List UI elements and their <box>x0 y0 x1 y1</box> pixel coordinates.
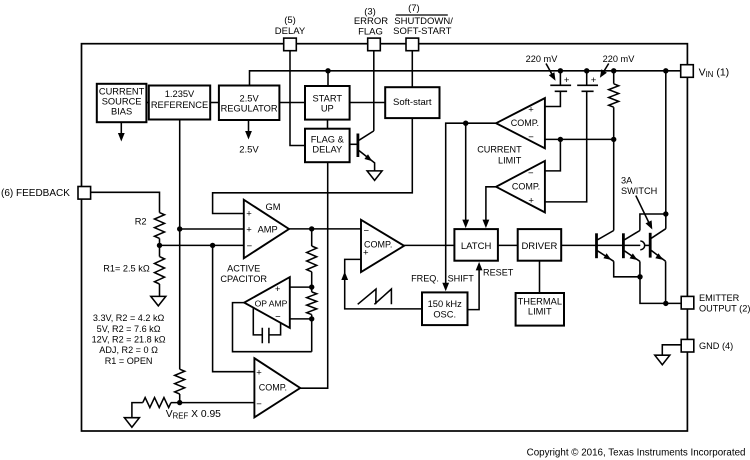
svg-text:GND (4): GND (4) <box>699 341 733 351</box>
resistor Vref divider vertical <box>175 369 185 394</box>
svg-text:220 mV: 220 mV <box>603 54 636 64</box>
svg-text:VREF X 0.95: VREF X 0.95 <box>166 409 221 421</box>
node GM output <box>309 226 314 231</box>
svg-text:+: + <box>591 75 597 86</box>
svg-text:OSC.: OSC. <box>433 310 456 320</box>
wire comp1 output branch to latch set <box>465 123 467 224</box>
pin FEEDBACK (6) <box>78 187 91 200</box>
svg-text:−: − <box>256 399 262 410</box>
wire PWM comparator output to latch <box>404 244 454 246</box>
wire op-amp - input <box>290 318 312 320</box>
wire regulator to start-up <box>279 102 305 104</box>
node sense line left <box>558 137 563 142</box>
resistor 220mV current sense <box>609 84 619 107</box>
svg-text:−: − <box>275 311 281 322</box>
svg-text:DELAY: DELAY <box>275 26 306 37</box>
svg-text:+: + <box>275 284 281 295</box>
block 2.5V REGULATOR <box>219 86 280 121</box>
svg-text:SHIFT: SHIFT <box>448 273 475 283</box>
node comp1 output branch <box>463 121 468 126</box>
wire R2 bottom to junction <box>159 238 161 256</box>
svg-text:R2: R2 <box>135 216 147 226</box>
svg-text:+: + <box>528 196 534 207</box>
wire op-amp + input <box>290 286 312 288</box>
block START UP <box>305 86 350 120</box>
ground at GND pin <box>655 355 670 365</box>
wire GM amp output to PWM comparator - input <box>289 228 361 230</box>
svg-text:+: + <box>256 367 262 378</box>
svg-text:REFERENCE: REFERENCE <box>151 100 208 110</box>
wire hop on base line <box>640 241 644 250</box>
wire VIN to 3A switch collectors <box>665 71 667 229</box>
svg-text:3.3V, R2 = 4.2 kΩ: 3.3V, R2 = 4.2 kΩ <box>93 313 165 323</box>
wire R1 to ground <box>159 284 161 296</box>
wire VIN rail to start-up top <box>327 71 329 86</box>
wire latch to driver <box>498 244 518 246</box>
svg-text:150 kHz: 150 kHz <box>428 299 462 309</box>
ground at Vref divider <box>124 418 139 428</box>
svg-text:FLAG &: FLAG & <box>311 135 345 145</box>
svg-text:+: + <box>363 248 369 259</box>
svg-text:R1 = OPEN: R1 = OPEN <box>105 356 153 366</box>
svg-text:COMP.: COMP. <box>259 382 287 392</box>
comparator PWM COMP <box>361 220 404 272</box>
svg-text:ADJ, R2 = 0 Ω: ADJ, R2 = 0 Ω <box>99 345 158 355</box>
wire op-amp feedback loop <box>233 303 312 352</box>
node VIN rail junctions <box>325 68 330 73</box>
wire start-up to soft-start <box>350 102 386 104</box>
wire Vref node resistor lead <box>132 403 180 418</box>
svg-text:EMITTER: EMITTER <box>699 293 740 303</box>
wire oscillator reset to latch <box>468 266 480 310</box>
pin DELAY (5) <box>284 38 297 51</box>
block THERMAL LIMIT <box>516 293 564 326</box>
comparator current limit 2 <box>496 161 545 213</box>
svg-text:LATCH: LATCH <box>461 241 492 252</box>
wire reference tap to GM amp + input <box>180 228 244 230</box>
capacitor active capacitor <box>253 308 280 344</box>
svg-text:SOFT-START: SOFT-START <box>393 26 451 37</box>
wire emitter output node to pin <box>640 277 681 304</box>
wire current limit comparator 2 output to latch <box>486 187 496 225</box>
node sense line right <box>611 137 616 142</box>
svg-text:(7): (7) <box>408 3 420 14</box>
arrow below current source bias <box>120 122 122 133</box>
wire driver output transistor base line <box>561 244 640 246</box>
wire Q2 emitter down <box>639 261 641 276</box>
wire flag-delay down to low comparator output <box>300 162 328 388</box>
wire PWM comparator + from sawtooth <box>345 259 422 309</box>
block DRIVER <box>518 229 562 261</box>
svg-text:220 mV: 220 mV <box>526 54 559 64</box>
arrow sawtooth into PWM comparator <box>341 272 348 281</box>
svg-text:OP AMP: OP AMP <box>255 298 288 308</box>
arrow comp1 set into latch <box>462 220 469 229</box>
svg-text:THERMAL: THERMAL <box>518 296 562 306</box>
svg-text:OUTPUT (2): OUTPUT (2) <box>699 303 750 313</box>
resistor active capacitor upper <box>307 246 317 272</box>
svg-text:(6) FEEDBACK: (6) FEEDBACK <box>1 188 70 199</box>
node emitter output <box>663 301 668 306</box>
node reference tap <box>177 226 182 231</box>
node Vref divider <box>177 400 182 405</box>
comparator low dropout COMP <box>254 358 300 417</box>
pin ERROR FLAG (3) <box>368 38 381 51</box>
wire sense resistor leads <box>613 71 615 231</box>
wire VIN rail y=70.8 <box>250 71 682 86</box>
pin EMITTER OUTPUT (2) <box>681 296 694 309</box>
resistor Vref horizontal <box>143 398 171 408</box>
capacitor C1 220mV sense <box>550 85 571 91</box>
wire comp1 - input current sense line <box>545 138 614 140</box>
wire GND pin to ground <box>662 345 681 355</box>
svg-text:LIMIT: LIMIT <box>528 306 552 316</box>
resistor R2 <box>155 213 165 239</box>
ground at flag transistor emitter <box>367 171 382 181</box>
svg-text:CURRENT: CURRENT <box>477 145 522 155</box>
block FLAG & DELAY <box>305 129 350 163</box>
svg-text:CPACITOR: CPACITOR <box>220 274 267 284</box>
resistor active capacitor lower <box>307 292 317 315</box>
svg-text:+: + <box>246 209 252 220</box>
svg-text:R1= 2.5 kΩ: R1= 2.5 kΩ <box>103 264 150 274</box>
pin SHUTDOWN/SOFT-START (7) <box>406 38 419 51</box>
svg-text:2.5V: 2.5V <box>239 145 259 156</box>
node feedback branch <box>210 243 215 248</box>
wire feedback node down to low comparator + input <box>213 245 255 371</box>
wire active capacitor resistor chain <box>311 229 313 352</box>
block LATCH <box>454 229 498 261</box>
svg-text:UP: UP <box>321 104 334 114</box>
svg-text:START: START <box>312 94 342 104</box>
svg-text:VIN (1): VIN (1) <box>699 66 730 79</box>
svg-text:REGULATOR: REGULATOR <box>221 103 278 113</box>
comparator current limit 1 <box>496 98 545 148</box>
block Soft-start <box>385 87 439 118</box>
pin GND (4) <box>681 339 694 352</box>
arrow comp2 set into latch <box>483 220 490 229</box>
ground at R1 <box>151 296 166 306</box>
wire soft-start down and left to GM amp + input <box>213 118 413 213</box>
op-amp active capacitor OP AMP <box>244 277 290 328</box>
wire SHUTDOWN pin to Soft-start top <box>411 51 413 88</box>
svg-text:5V, R2 = 7.6 kΩ: 5V, R2 = 7.6 kΩ <box>97 324 161 334</box>
svg-text:12V, R2 = 21.8 kΩ: 12V, R2 = 21.8 kΩ <box>92 335 166 345</box>
svg-text:−: − <box>247 241 253 252</box>
svg-text:DELAY: DELAY <box>312 145 342 155</box>
block CURRENT SOURCE BIAS <box>97 84 147 122</box>
transistor Q2 3A switch <box>622 233 625 258</box>
wire Q3 emitter down <box>665 261 667 303</box>
svg-text:Soft-start: Soft-start <box>393 97 432 108</box>
svg-text:FLAG: FLAG <box>358 27 383 38</box>
op-amp GM AMP <box>244 200 289 259</box>
svg-text:LIMIT: LIMIT <box>498 155 522 165</box>
pin VIN (1) <box>681 65 694 78</box>
svg-text:DRIVER: DRIVER <box>521 241 557 252</box>
svg-text:SWITCH: SWITCH <box>621 186 657 196</box>
wire FEEDBACK pin to R2 <box>90 192 159 212</box>
wire ERROR FLAG pin down to flag transistor collector <box>373 51 375 131</box>
svg-text:COMP.: COMP. <box>511 118 539 128</box>
svg-text:FREQ.: FREQ. <box>411 273 439 283</box>
svg-text:COMP.: COMP. <box>512 182 540 192</box>
wire bias to reference <box>146 102 148 104</box>
block 1.235V REFERENCE <box>149 86 210 120</box>
svg-text:SOURCE: SOURCE <box>102 97 142 107</box>
node op-amp + tap <box>309 284 314 289</box>
svg-text:CURRENT: CURRENT <box>99 87 145 97</box>
svg-text:RESET: RESET <box>483 268 514 278</box>
wire reference output down to Vref divider <box>179 120 181 370</box>
svg-text:−: − <box>528 132 534 143</box>
wire start-up to flag-delay <box>327 120 329 129</box>
node op-amp - tap <box>309 316 314 321</box>
wire cap2 to comp2 + input <box>545 71 587 202</box>
wire Vref resistor to node <box>179 394 181 403</box>
transistor Q3 3A switch <box>649 233 652 258</box>
svg-text:+: + <box>528 104 534 115</box>
svg-text:+: + <box>564 75 570 86</box>
svg-text:1.235V: 1.235V <box>165 89 195 99</box>
resistor R1 2.5k <box>155 257 165 284</box>
wire DELAY pin to FLAG & DELAY <box>290 51 305 146</box>
arrow and 2.5V label below regulator <box>248 120 250 132</box>
wire feedback node to GM amp - input <box>160 244 244 246</box>
wire driver to thermal limit <box>539 261 541 293</box>
wire comp2 - input <box>545 139 561 171</box>
svg-text:(5): (5) <box>284 15 296 26</box>
sawtooth waveform <box>358 289 392 304</box>
svg-text:AMP: AMP <box>258 224 278 234</box>
svg-text:Copyright © 2016, Texas Instru: Copyright © 2016, Texas Instruments Inco… <box>527 448 746 459</box>
arrow reset into latch <box>476 262 483 271</box>
svg-text:−: − <box>528 168 534 179</box>
svg-text:GM: GM <box>266 202 281 212</box>
wire Q1 emitter to output node <box>614 261 640 277</box>
wire reference to regulator <box>210 102 219 104</box>
capacitor C2 220mV sense <box>577 85 598 91</box>
node emitter join <box>637 274 642 279</box>
arrow freq shift into oscillator <box>442 283 449 292</box>
svg-text:+: + <box>246 225 252 236</box>
transistor Q1 3A switch <box>595 233 598 258</box>
svg-text:2.5V: 2.5V <box>240 94 260 104</box>
svg-text:3A: 3A <box>621 175 633 185</box>
node feedback R1 R2 <box>157 243 162 248</box>
block 150 kHz OSC <box>422 292 468 325</box>
node Q2 Q3 collector branch <box>663 211 668 216</box>
outer boundary frame <box>82 44 688 431</box>
svg-text:−: − <box>364 226 370 237</box>
svg-text:ERROR: ERROR <box>354 16 388 27</box>
wire Vref node to low comparator - input <box>180 402 255 404</box>
svg-text:BIAS: BIAS <box>111 107 132 117</box>
wire current limit comparator 1 output <box>446 123 496 287</box>
svg-text:ACTIVE: ACTIVE <box>227 263 260 273</box>
transistor flag NPN <box>350 143 357 145</box>
wire Q2 collector branch <box>640 214 666 231</box>
wire cap1 to comp1 + input <box>545 71 561 107</box>
